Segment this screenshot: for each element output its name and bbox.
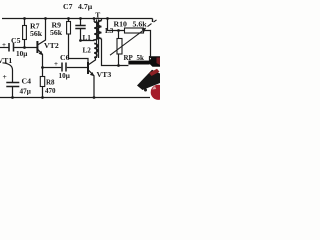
wire VT3 emitter to ground (89, 70, 94, 97)
wire C4 bottom to ground (12, 87, 14, 98)
wire emitter node to C6 (43, 67, 62, 69)
svg-text:C7: C7 (63, 2, 73, 11)
speaker body block (148, 56, 160, 67)
junction node ground-C4 (11, 96, 14, 99)
svg-text:L3: L3 (105, 27, 114, 35)
capacitor C7 plates (75, 26, 85, 29)
capacitor C7 leads and tap wire (81, 19, 95, 41)
junction node C7-tap (79, 39, 82, 42)
wire speaker lower terminal (145, 85, 147, 91)
wire rail tap to R10 (108, 19, 125, 31)
junction node base-R7 (23, 46, 26, 49)
svg-text:+: + (3, 72, 7, 81)
transistor VT3 emitter arrowhead (90, 72, 94, 76)
red knob disc (151, 85, 166, 100)
svg-text:RP: RP (124, 54, 134, 62)
wire VT2 emitter down (38, 50, 43, 68)
transistor VT3 base bar (87, 62, 89, 74)
junction node rail-R10 (106, 17, 109, 20)
junction node ground-VT3 emitter (93, 96, 96, 99)
potentiometer RP body (117, 39, 122, 55)
junction node ground-R8 (41, 96, 44, 99)
wire speaker terminal stub (149, 56, 151, 61)
svg-text:5k: 5k (137, 54, 145, 62)
inductor L1 winding (94, 22, 98, 41)
svg-text:R8: R8 (46, 79, 55, 87)
svg-text:C5: C5 (11, 36, 21, 45)
svg-text:L2: L2 (83, 47, 92, 55)
junction node rail-C7 (79, 17, 82, 20)
transistor VT2 base bar (36, 41, 38, 53)
svg-text:C6: C6 (60, 53, 70, 62)
transformer core (97, 20, 99, 59)
svg-text:C4: C4 (22, 77, 32, 86)
junction node speaker lower terminal (144, 89, 147, 92)
svg-text:+: + (54, 60, 58, 68)
svg-text:T: T (95, 11, 100, 20)
transistor VT2 emitter arrowhead (39, 51, 43, 55)
wire input from VT1 to C5 (0, 47, 8, 49)
wire bottom ground rail (0, 97, 150, 99)
inductor L3 winding (98, 21, 102, 39)
junction node rail-L1 (93, 17, 96, 20)
wire L3 bottom to output node (102, 39, 129, 66)
wire L3 top to rail (101, 19, 103, 21)
svg-text:4.7μ: 4.7μ (78, 2, 93, 11)
svg-text:VT1: VT1 (0, 56, 12, 65)
resistor R7 leads (24, 19, 26, 48)
junction node RP top (117, 29, 120, 32)
switch linkage dashed line (148, 20, 157, 27)
svg-text:470: 470 (45, 87, 56, 95)
wire VT1 emitter branch to C4 (3, 63, 13, 83)
wire VT2 collector to rail (38, 19, 46, 45)
resistor R8 body (40, 77, 44, 87)
wire top supply rail (2, 19, 153, 23)
resistor R10 body (125, 28, 144, 33)
svg-text:10μ: 10μ (16, 50, 27, 58)
junction node rail-VT2 collector (44, 17, 47, 20)
junction node rail-R7 (23, 17, 26, 20)
junction node rail-R9 (67, 17, 70, 20)
capacitor C4 plates (6, 83, 19, 87)
wire C5 to VT2 base (14, 47, 36, 49)
potentiometer RP wiper arrow (110, 30, 144, 55)
svg-text:R10: R10 (114, 20, 128, 29)
wire C6 to VT3 base (67, 67, 88, 69)
resistor R9 body (67, 22, 71, 35)
svg-text:L1: L1 (83, 34, 92, 42)
svg-text:+: + (2, 41, 6, 49)
wire RP top (118, 31, 120, 39)
svg-text:56k: 56k (50, 28, 63, 37)
resistor R7 body (23, 26, 27, 40)
junction node emitter-C6 (41, 66, 44, 69)
svg-text:5.6k: 5.6k (133, 20, 148, 29)
inductor L2 winding (94, 44, 97, 58)
svg-text:47μ: 47μ (20, 88, 31, 96)
junction node RP bottom (117, 64, 120, 67)
wire RP bottom (118, 54, 120, 66)
wire L2 bottom to VT3 collector (89, 58, 96, 65)
speaker connection bar (128, 61, 149, 65)
wire emitter node to R8 and ground (42, 68, 44, 98)
svg-text:VT2: VT2 (44, 41, 59, 50)
speaker cone band (137, 70, 160, 90)
svg-text:VT3: VT3 (97, 70, 112, 79)
svg-text:56k: 56k (30, 29, 43, 38)
resistor R9 leads and wire to VT3 base (69, 19, 89, 64)
wire R10 to speaker (144, 31, 151, 59)
capacitor C6 plates (62, 63, 66, 72)
wire L1 top to rail (93, 19, 95, 23)
capacitor C5 plates (9, 43, 14, 52)
svg-text:10μ: 10μ (59, 72, 70, 80)
